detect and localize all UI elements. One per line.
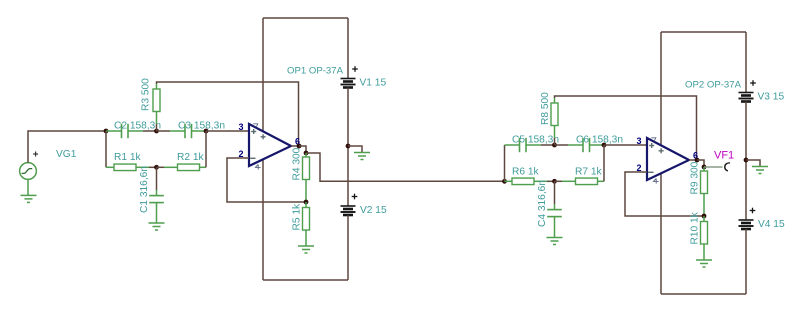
wire VG1 to ground [27, 179, 29, 195]
wire C5 to node C [541, 144, 555, 146]
svg-text:VF1: VF1 [714, 150, 734, 162]
node D junction R6-R7-C4 [552, 179, 557, 184]
resistor R3 [153, 89, 160, 112]
svg-text:C1 316,6n: C1 316,6n [139, 166, 150, 213]
resistor R6 [512, 178, 534, 185]
wire stage1 output to stage2 input [306, 153, 505, 181]
resistor R2 [178, 164, 200, 171]
wire feedback op-amp pin 2 to R4-R5 node [227, 158, 306, 202]
svg-text:C5 158,3n: C5 158,3n [512, 135, 559, 146]
wire V1 to ground node [347, 88, 349, 207]
wire V2 down to bottom rail [347, 215, 349, 280]
wire to mid ground stage2 [746, 160, 760, 167]
svg-text:OP2 OP-37A: OP2 OP-37A [685, 80, 742, 91]
node output stage2 junction [695, 158, 700, 163]
op-amp OP2 [636, 136, 698, 184]
svg-text:R4 300: R4 300 [292, 147, 303, 180]
svg-text:R5 1k: R5 1k [292, 203, 303, 231]
ground at C4 [547, 238, 563, 245]
wire supply rail bottom stage1 [263, 279, 348, 281]
resistor R5 lead bottom [305, 230, 307, 246]
svg-text:R2 1k: R2 1k [177, 152, 205, 163]
wire C2 to node A [143, 130, 157, 132]
wire feedback R8 to op-amp output stage2 [555, 96, 697, 160]
svg-text:C3 158,3n: C3 158,3n [178, 121, 225, 132]
svg-text:V1 15: V1 15 [360, 78, 387, 89]
wire to voltage probe VF1 [704, 166, 723, 168]
capacitor C4 [547, 210, 562, 217]
node output stage1 junction [297, 144, 302, 149]
op-amp OP2 power wire bottom [660, 173, 662, 294]
capacitor C2 [122, 124, 129, 138]
wire op-amp output stub stage2 [689, 159, 697, 161]
ground at R5 [298, 246, 314, 253]
svg-text:C6 158,3n: C6 158,3n [576, 135, 623, 146]
wire feedback R3 to op-amp output [157, 82, 299, 146]
resistor R7 [576, 178, 598, 185]
resistor R7 lead left [562, 180, 576, 182]
node input stage1 junction [104, 129, 109, 134]
resistor R2 lead left [164, 166, 178, 168]
wire R2 up to plus-input node [205, 131, 207, 167]
node B junction R1-R2-C1 [154, 165, 159, 170]
resistor R9 lead bottom [703, 194, 705, 217]
node A junction C2-C3-R3 [154, 129, 159, 134]
wire V4 down to bottom rail [745, 229, 747, 294]
wire input node down to R1 row [105, 131, 107, 167]
V4 plus polarity mark [750, 208, 756, 214]
svg-text:OP1 OP-37A: OP1 OP-37A [287, 66, 344, 77]
node R4 top junction [304, 151, 309, 156]
wire supply rail bottom stage2 [661, 293, 746, 295]
wire node to op-amp pin 3 stage2 [604, 144, 647, 146]
capacitor C4 lead top [554, 204, 556, 210]
resistor R1 lead left [106, 166, 114, 168]
wire node B down to C1 [156, 167, 158, 190]
capacitor C3 leads [170, 130, 206, 132]
resistor R2 lead right [200, 166, 207, 168]
battery V3 [739, 93, 754, 102]
wire input node up to cap row stage2 [504, 145, 506, 181]
svg-text:C2 158,3n: C2 158,3n [114, 121, 161, 132]
capacitor C6 leads [568, 144, 604, 146]
node plus-input stage2 junction [602, 143, 607, 148]
wire node B to R2 [157, 166, 165, 168]
resistor R6 lead right [534, 180, 547, 182]
svg-text:R8 500: R8 500 [540, 92, 551, 125]
ground at VG1 [21, 195, 37, 202]
wire feedback op-amp pin 2 to R9-R10 node [625, 172, 704, 216]
wire output to R9 branch [697, 160, 704, 167]
wire supply rail top stage2 [661, 31, 746, 33]
VG1 plus polarity mark [33, 152, 38, 157]
node C junction C5-C6-R8 [552, 143, 557, 148]
resistor R5 lead top [305, 202, 307, 208]
resistor R4 lead bottom [305, 180, 307, 203]
wire supply rail right upper stage1 [347, 18, 349, 79]
node R9-R10 junction [702, 214, 707, 219]
ground mid stage2 [752, 167, 768, 174]
svg-text:R9 300: R9 300 [690, 161, 701, 194]
node input stage2 junction [502, 179, 507, 184]
wire node D to R7 [555, 180, 563, 182]
capacitor C6 [583, 138, 590, 152]
wire R6 to node D [547, 180, 555, 182]
capacitor C3 [185, 124, 192, 138]
battery V1 [341, 79, 356, 88]
capacitor C2 leads [106, 130, 143, 132]
resistor R4 lead top [305, 153, 307, 157]
V2 plus polarity mark [352, 194, 358, 200]
svg-text:R10 1k: R10 1k [690, 211, 701, 244]
resistor R4 [303, 157, 310, 180]
resistor R6 lead left [505, 180, 513, 182]
node plus-input stage1 junction [204, 129, 209, 134]
wire node to op-amp pin 3 [206, 130, 249, 132]
node supply mid junction stage1 [346, 144, 351, 149]
resistor R1 [114, 164, 136, 171]
wire to mid ground stage1 [348, 146, 362, 153]
svg-text:VG1: VG1 [56, 149, 77, 160]
svg-text:V4 15: V4 15 [758, 219, 785, 230]
op-amp OP1 power wire bottom [262, 159, 264, 280]
node R9 top junction [702, 165, 707, 170]
capacitor C1 [149, 196, 164, 203]
wire R7 up to plus-input node stage2 [603, 145, 605, 181]
svg-text:3: 3 [238, 122, 243, 132]
wire supply rail top stage1 [263, 17, 348, 19]
V1 plus polarity mark [352, 66, 358, 72]
capacitor C5 leads [505, 144, 542, 146]
wire R1 to node B [149, 166, 157, 168]
svg-text:R7 1k: R7 1k [575, 167, 603, 178]
resistor R1 lead right [136, 166, 149, 168]
resistor R10 lead top [703, 216, 705, 222]
wire V3 to ground node [745, 102, 747, 221]
wire output to R4 branch [299, 146, 306, 153]
op-amp OP1 [238, 122, 300, 170]
wire node D down to C4 [554, 181, 556, 204]
op-amp OP1 power wire top [262, 18, 264, 132]
ground at R10 [696, 260, 712, 267]
wire node A to C3 [157, 130, 171, 132]
ground mid stage1 [354, 153, 370, 160]
resistor R3 leads [156, 84, 158, 124]
resistor R9 [701, 171, 708, 194]
op-amp OP2 power wire top [660, 32, 662, 146]
wire R8 stub to node C [554, 138, 556, 145]
node R4-R5 junction [304, 200, 309, 205]
wire VG1 up and right to input node [28, 131, 106, 163]
resistor R10 lead bottom [703, 244, 705, 260]
svg-text:R1 1k: R1 1k [114, 152, 142, 163]
resistor R10 [701, 222, 708, 245]
resistor R7 lead right [598, 180, 605, 182]
capacitor C5 [520, 138, 527, 152]
capacitor C4 lead bottom [554, 217, 556, 238]
resistor R8 [551, 103, 558, 126]
svg-text:V3 15: V3 15 [758, 92, 785, 103]
voltage generator VG1 [20, 163, 37, 180]
capacitor C1 lead bottom [156, 203, 158, 223]
voltage probe VF1 [725, 163, 730, 171]
capacitor C1 lead top [156, 190, 158, 196]
wire supply rail right upper stage2 [745, 32, 747, 93]
battery V4 [739, 220, 754, 229]
resistor R5 [303, 208, 310, 231]
wire R3 stub to node A [156, 124, 158, 131]
resistor R9 lead top [703, 167, 705, 171]
wire op-amp output stub [291, 145, 299, 147]
svg-text:R3 500: R3 500 [141, 78, 152, 111]
svg-text:R6 1k: R6 1k [512, 167, 540, 178]
node supply mid junction stage2 [744, 158, 749, 163]
svg-text:V2 15: V2 15 [360, 205, 387, 216]
battery V2 [341, 206, 356, 215]
wire node C to C6 [555, 144, 569, 146]
V3 plus polarity mark [750, 80, 756, 86]
svg-text:C4 316,6n: C4 316,6n [537, 180, 548, 227]
svg-text:3: 3 [636, 136, 641, 146]
resistor R8 leads [554, 98, 556, 138]
ground at C1 [149, 223, 165, 230]
